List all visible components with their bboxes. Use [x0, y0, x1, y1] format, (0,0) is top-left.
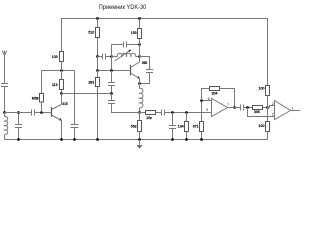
svg-text:103: 103 — [52, 55, 58, 59]
wire C3 to base Q1 — [35, 112, 52, 114]
resistor R11 204 feedback — [202, 87, 236, 109]
wire antenna to input node — [4, 87, 6, 113]
svg-text:5: 5 — [206, 108, 208, 112]
svg-text:562: 562 — [131, 125, 137, 129]
wire collector Q1 — [61, 94, 63, 105]
node U2 input network — [246, 106, 249, 109]
resistor R5 2к8 — [88, 71, 99, 141]
capacitor C7 feedback — [138, 57, 153, 85]
svg-text:100: 100 — [259, 124, 265, 128]
wire base Q2 — [98, 70, 131, 72]
inductor L3 emitter choke — [138, 88, 143, 114]
svg-text:6: 6 — [208, 97, 210, 101]
svg-text:510: 510 — [88, 31, 94, 35]
transistor Q2 КТ368 — [131, 61, 148, 79]
resistor R6 15к — [131, 17, 142, 44]
wire U1 output — [228, 107, 241, 109]
svg-text:153: 153 — [131, 31, 137, 35]
capacitor C11 to ground — [169, 113, 176, 141]
capacitor C4 bypass — [71, 71, 79, 141]
svg-text:7: 7 — [227, 103, 229, 107]
capacitor C9 divider lower — [108, 94, 140, 113]
svg-text:283: 283 — [88, 80, 94, 84]
svg-text:368: 368 — [142, 61, 148, 65]
capacitor C1 — [1, 84, 8, 87]
wire +V top rail — [62, 19, 268, 86]
ground — [136, 140, 142, 149]
svg-text:2: 2 — [272, 102, 274, 106]
wire pin2 U2 — [268, 106, 275, 108]
node collector Q1 — [60, 92, 63, 95]
svg-text:1: 1 — [292, 106, 294, 110]
wire output — [291, 110, 301, 112]
wire pin3 U2 bias — [248, 108, 275, 117]
inductor L1 — [5, 113, 8, 140]
wire divider tap to base wire — [97, 57, 99, 71]
svg-text:Приемник YDK-30: Приемник YDK-30 — [99, 4, 147, 11]
op-amp U1 — [200, 97, 229, 117]
node divider tap — [96, 55, 99, 58]
wire tank to collector Q2 — [139, 45, 141, 63]
resistor R10 671 — [193, 101, 204, 141]
wire input line — [5, 112, 32, 114]
capacitor C8 divider upper — [108, 71, 115, 95]
antenna WA1 — [2, 50, 7, 83]
svg-text:М68: М68 — [32, 97, 39, 101]
resistor R4 51к — [88, 17, 99, 56]
transistor Q1 КТ315 — [52, 102, 68, 141]
node C11 tap — [171, 111, 174, 114]
node base Q1 — [40, 111, 43, 114]
resistor R13 100 upper — [259, 86, 270, 108]
resistor R1 М68 — [32, 71, 44, 113]
svg-text:306: 306 — [254, 110, 260, 114]
resistor R12 306 — [253, 106, 269, 114]
wire collector Q1 to divider caps — [62, 93, 112, 95]
resistor R8 10к — [140, 111, 162, 121]
wire to op-amp U1 input — [165, 112, 212, 114]
wire tank left vertical — [111, 45, 113, 71]
wire ground rail — [5, 139, 268, 141]
wire emitter Q2 — [139, 79, 141, 89]
svg-text:3: 3 — [272, 113, 274, 117]
node input junction — [3, 111, 6, 114]
resistor R7 5к6 — [131, 113, 142, 141]
capacitor C10 coupling — [162, 110, 165, 116]
wire bias node A — [42, 70, 75, 72]
svg-text:204: 204 — [212, 92, 218, 96]
svg-text:10к: 10к — [146, 116, 152, 120]
wire C12 to R12 — [244, 107, 253, 109]
svg-text:134: 134 — [178, 125, 184, 129]
capacitor C5 coupling — [98, 54, 113, 60]
inductor L2 variable — [112, 50, 141, 62]
node R9 tap — [185, 111, 188, 114]
svg-text:113: 113 — [52, 83, 58, 87]
svg-text:315: 315 — [62, 102, 68, 106]
capacitor C3 — [32, 110, 35, 116]
capacitor C2 — [15, 111, 22, 141]
resistor R14 100 lower — [259, 108, 270, 140]
svg-text:100: 100 — [259, 86, 265, 90]
capacitor C6 tank top — [112, 42, 141, 48]
capacitor C12 — [241, 105, 244, 111]
svg-text:671: 671 — [193, 125, 199, 129]
resistor R9 134 — [178, 113, 189, 141]
op-amp U2 — [272, 101, 294, 120]
resistor R2 10к — [52, 52, 64, 71]
resistor R3 11к — [52, 71, 63, 94]
